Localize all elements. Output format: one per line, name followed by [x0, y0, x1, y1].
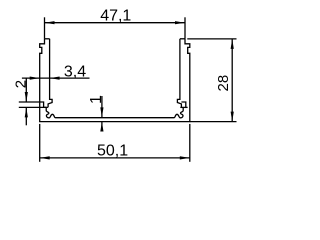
svg-text:2: 2 [13, 80, 30, 88]
svg-text:50,1: 50,1 [97, 142, 128, 159]
svg-text:28: 28 [215, 75, 232, 92]
svg-text:47,1: 47,1 [100, 7, 131, 24]
svg-text:3,4: 3,4 [64, 64, 86, 81]
svg-text:1: 1 [88, 95, 105, 104]
